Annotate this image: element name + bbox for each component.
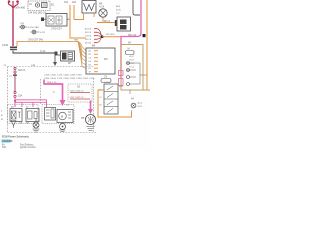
wire ORG stub left xyxy=(74,13,84,20)
ground circle below pump xyxy=(60,124,66,130)
svg-text:C X4: C X4 xyxy=(130,63,134,65)
relay 1 xyxy=(10,109,22,122)
wire BLK xyxy=(13,51,55,54)
dashed boundary bottom xyxy=(8,132,97,134)
battery feed symbol xyxy=(8,1,18,9)
svg-text:SPL-N4: SPL-N4 xyxy=(128,34,137,37)
wire ORG stub box xyxy=(143,89,150,91)
fuse F31 xyxy=(14,67,16,69)
relay 3 xyxy=(45,108,56,121)
wire TAN fanout to ECM pins xyxy=(78,42,86,69)
relay module dashed box 2 xyxy=(42,105,74,124)
wire BLK top right xyxy=(133,0,140,15)
legend highlight xyxy=(2,139,11,142)
wire RED 2 xyxy=(14,73,16,92)
relay 2 xyxy=(26,109,39,122)
svg-text:15A: 15A xyxy=(18,95,23,98)
gauges xyxy=(127,62,130,65)
wire PNK thick to arrow xyxy=(44,80,63,102)
pink connector B xyxy=(119,79,124,86)
svg-text:A C4: A C4 xyxy=(130,55,134,58)
wire PNK horizontal xyxy=(15,100,47,103)
svg-text:B D2: B D2 xyxy=(130,60,134,62)
relay module dashed box 1 xyxy=(8,105,39,124)
wire ORG bottom xyxy=(98,90,132,117)
svg-text:10A: 10A xyxy=(72,1,77,4)
pump motor box xyxy=(57,110,73,123)
relay K5 box xyxy=(117,17,131,31)
wire PNK right xyxy=(121,0,141,79)
wire ORG stub gauge xyxy=(144,74,148,76)
relay box A dashed xyxy=(28,1,50,11)
svg-text:WX-X: WX-X xyxy=(104,21,110,23)
svg-text:J700-C97 TAN: J700-C97 TAN xyxy=(28,39,43,42)
wire PNK pump feed xyxy=(90,101,92,113)
svg-text:C304, C404, C175, C266, C284,: C304, C404, C175, C266, C284, C294, C304… xyxy=(44,78,95,80)
wire convergence xyxy=(97,29,102,43)
svg-text:C206, C306, C175, C266, C284,: C206, C306, C175, C266, C284, C294 xyxy=(44,75,82,77)
connector C2 pin rows xyxy=(85,28,92,45)
svg-text:A-C4: A-C4 xyxy=(99,6,105,9)
svg-text:B2 C4: B2 C4 xyxy=(85,32,92,34)
splice S2 xyxy=(32,30,36,34)
pink connector A xyxy=(119,71,124,76)
ground triangle G8 xyxy=(11,121,16,126)
off-page arrow xyxy=(53,62,57,66)
svg-text:E5 D4: E5 D4 xyxy=(85,43,92,45)
dashed boundary mid xyxy=(40,79,42,105)
off-page arrow PNK xyxy=(60,100,66,106)
dashed boundary right xyxy=(93,78,95,133)
ground circle G7 xyxy=(33,122,39,128)
wire to off-page arrow xyxy=(55,55,61,62)
svg-text:30A F4: 30A F4 xyxy=(18,69,26,72)
svg-text:TAN: TAN xyxy=(74,39,79,42)
connector pigtail xyxy=(41,18,44,22)
svg-text:J700-C97: J700-C97 xyxy=(51,28,62,31)
svg-text:Ignition Control: Ignition Control xyxy=(20,146,36,149)
svg-text:C100: C100 xyxy=(2,43,9,47)
wire TAN xyxy=(17,42,78,47)
svg-text:S-210 TAN: S-210 TAN xyxy=(28,26,39,29)
svg-text:A1 D4: A1 D4 xyxy=(85,28,92,31)
svg-text:MX: MX xyxy=(104,58,108,61)
gauge wires xyxy=(130,63,144,94)
wire ORG to relay K5 xyxy=(114,22,118,24)
wire WT-ORG xyxy=(102,36,121,38)
connector at relay K5 xyxy=(115,20,117,26)
svg-text:D4: D4 xyxy=(99,105,101,107)
wire ORG 2 xyxy=(73,5,75,20)
wire PNK junction xyxy=(14,97,16,107)
svg-text:B-20: B-20 xyxy=(116,10,121,12)
dashed boundary top xyxy=(8,66,94,68)
inline fuse xyxy=(14,91,16,93)
svg-text:C3: C3 xyxy=(99,97,101,99)
ECM pin rows xyxy=(89,50,93,74)
svg-text:1A4 0A2 2B1 C4: 1A4 0A2 2B1 C4 xyxy=(28,12,46,15)
svg-text:Fuel Delivery: Fuel Delivery xyxy=(20,143,34,146)
wire ORG stub right xyxy=(93,13,95,17)
svg-text:30A-A60: 30A-A60 xyxy=(15,6,26,10)
wire RED feed xyxy=(12,9,14,46)
wire ORG right edge xyxy=(146,0,148,90)
relay box B xyxy=(46,14,67,27)
svg-text:C-14: C-14 xyxy=(40,50,46,53)
svg-text:PNK 1.25: PNK 1.25 xyxy=(47,82,57,84)
svg-text:S-211: S-211 xyxy=(40,32,46,34)
svg-text:ECM Power Schematic: ECM Power Schematic xyxy=(2,135,30,138)
svg-text:D C4: D C4 xyxy=(130,67,134,69)
svg-text:IGN: IGN xyxy=(2,147,6,149)
junction dot xyxy=(101,35,104,38)
svg-text:B4: B4 xyxy=(92,44,96,48)
svg-text:D4 C4: D4 C4 xyxy=(85,39,92,41)
svg-text:M: M xyxy=(128,48,130,51)
connector C8 box dashed xyxy=(68,84,92,102)
connector C-14 tag xyxy=(55,52,58,56)
wire ORG 1 xyxy=(70,5,86,38)
dashed boundary left xyxy=(7,67,9,133)
svg-text:M: M xyxy=(1,119,3,121)
svg-text:WT-ORG: WT-ORG xyxy=(106,34,115,36)
svg-text:LEGEND: LEGEND xyxy=(2,140,13,143)
horn box xyxy=(82,1,96,14)
svg-text:C3 D4: C3 D4 xyxy=(85,36,92,38)
switch stack box xyxy=(104,84,118,114)
connector W7 xyxy=(61,51,75,61)
svg-text:15A: 15A xyxy=(64,1,69,4)
